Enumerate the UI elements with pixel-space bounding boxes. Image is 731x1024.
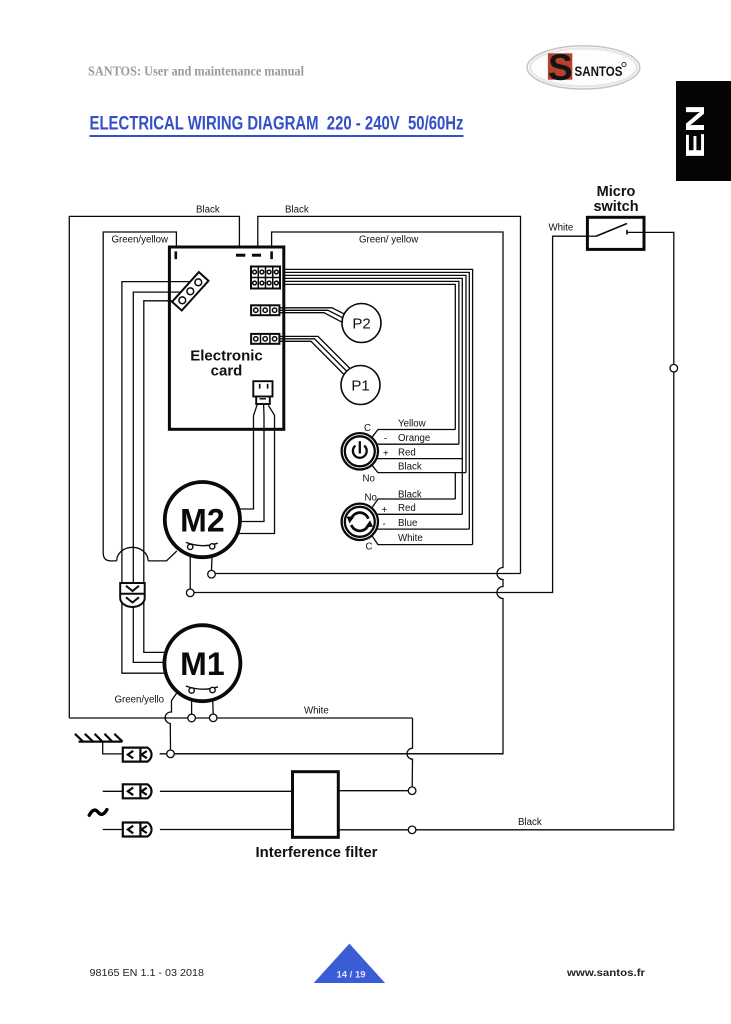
svg-text:C: C bbox=[366, 542, 373, 553]
svg-text:Black: Black bbox=[398, 462, 422, 473]
wire: card plug to M2 wire 3 bbox=[237, 405, 274, 533]
svg-text:card: card bbox=[211, 363, 243, 380]
wire: card plug to M2 wire 2 bbox=[240, 404, 264, 522]
wire: reverse button C (White) bbox=[372, 535, 473, 544]
wire: Green/yellow net right (card tick to right loop down to earth line) bbox=[175, 232, 504, 754]
wire: P1 connector to P1 (3 wires) bbox=[280, 336, 350, 368]
svg-text:Green/yello: Green/yello bbox=[115, 695, 165, 706]
wire: White net from M2 left brush up to micro switch bbox=[194, 236, 587, 592]
connector: card tilted 3-pin bbox=[172, 272, 208, 310]
card top terminal dash 2 bbox=[252, 254, 261, 257]
wire: live bullet to filter bbox=[160, 790, 293, 792]
junction: M2 right brush connector bbox=[208, 570, 216, 578]
svg-text:P2: P2 bbox=[352, 316, 370, 333]
connector: earth bullet terminal bbox=[123, 748, 152, 762]
wire: reverse button No (Black) bbox=[372, 499, 456, 508]
svg-text:www.santos.fr: www.santos.fr bbox=[566, 968, 645, 979]
svg-text:S: S bbox=[548, 47, 573, 88]
wire bundle: card to push-buttons (6 wires nested corner) bbox=[284, 269, 473, 544]
wire: M1 right brush pin drop to rail bbox=[212, 693, 215, 714]
wire: reverse button - (Blue) bbox=[377, 528, 469, 530]
wire: micro switch output down right side to interference filter bbox=[412, 232, 674, 829]
svg-text:Red: Red bbox=[398, 503, 416, 514]
wire: ground lead to earth bullet connector bbox=[103, 742, 123, 754]
wire: filter right upper output bbox=[338, 790, 408, 792]
svg-text:Black: Black bbox=[518, 817, 542, 828]
connector: card bottom plug bbox=[253, 381, 272, 404]
svg-text:ELECTRICAL WIRING DIAGRAM 220: ELECTRICAL WIRING DIAGRAM 220 - 240V 50/… bbox=[90, 114, 464, 135]
svg-text:No: No bbox=[363, 474, 375, 485]
wire: White rail drop to filter right node (hops earth line) bbox=[407, 718, 413, 787]
svg-text:Blue: Blue bbox=[398, 518, 417, 529]
wire: M1 left brush pin drop to rail bbox=[191, 693, 193, 714]
wire: neutral bullet to filter bbox=[160, 829, 293, 831]
junction: M1 right brush on rail bbox=[209, 714, 217, 722]
push-button: power (on/off) bbox=[342, 433, 378, 469]
wire: Black net 1 (card top-left to outer loop down to bottom rail) bbox=[69, 216, 239, 718]
svg-text:White: White bbox=[304, 706, 329, 717]
wire: power button C (Yellow) bbox=[372, 430, 456, 438]
connector: 2-pole inline connector on M1 wires bbox=[120, 583, 145, 607]
svg-text:C: C bbox=[364, 423, 371, 434]
connector: card P2 3-pin bbox=[251, 305, 279, 315]
wire: Black net 2 (card top to right loop down to M2 terminal wire) bbox=[258, 216, 521, 573]
junction: filter right upper node bbox=[408, 787, 416, 795]
wire: green/yellow into M2 lower-left bbox=[148, 551, 177, 561]
motor M2 bbox=[165, 482, 240, 557]
wire: card plug to M2 wire 1 bbox=[239, 404, 258, 509]
svg-text:Green/ yellow: Green/ yellow bbox=[359, 235, 419, 246]
svg-text:EN: EN bbox=[680, 105, 710, 159]
svg-text:SANTOS: User and maintenance m: SANTOS: User and maintenance manual bbox=[88, 64, 304, 79]
svg-text:M2: M2 bbox=[180, 503, 224, 539]
connector: card 8-pin block bbox=[251, 267, 280, 289]
svg-text:Black: Black bbox=[196, 205, 220, 216]
wire: link power button No to reverse button No bbox=[454, 473, 456, 499]
svg-text:-: - bbox=[384, 434, 387, 445]
connector: mains live bullet terminal bbox=[103, 790, 123, 792]
wire: card tilted connector pin1 to M1 (outer) bbox=[122, 282, 195, 674]
card top terminal tick right bbox=[270, 251, 273, 259]
wire: power button + (Red) bbox=[377, 458, 462, 460]
svg-text:Interference filter: Interference filter bbox=[256, 845, 378, 861]
wire hop: green/yellow over three card-to-M1 wires bbox=[117, 547, 148, 561]
micro switch bbox=[587, 217, 644, 249]
svg-text:White: White bbox=[549, 223, 574, 234]
svg-text:SANTOS: SANTOS bbox=[575, 64, 623, 80]
AC supply symbol ~ bbox=[89, 810, 107, 816]
wire: earth line from ground/bullet to green-yellow right riser bbox=[160, 753, 502, 755]
wire: Green/yellow net left (card tick to left loop down to M2 chassis) bbox=[103, 232, 176, 561]
junction: earth node bbox=[167, 750, 175, 758]
wire: filter right lower output bbox=[338, 829, 408, 831]
wire: M2 right brush pin drop bbox=[211, 549, 214, 570]
junction: M1 left brush on rail bbox=[188, 714, 196, 722]
ground: chassis earth symbol bbox=[75, 734, 123, 742]
svg-text:White: White bbox=[398, 533, 423, 544]
svg-text:Orange: Orange bbox=[398, 433, 430, 444]
svg-text:Black: Black bbox=[285, 205, 309, 216]
connector: card P1 3-pin bbox=[251, 334, 279, 344]
svg-text:Green/yellow: Green/yellow bbox=[112, 235, 170, 246]
wire: bottom White rail bbox=[69, 717, 412, 719]
svg-text:98165 EN 1.1 - 03 2018: 98165 EN 1.1 - 03 2018 bbox=[90, 968, 205, 979]
interference filter box bbox=[293, 772, 339, 838]
wire: M1 green/yellow chassis lead down to earth node (hops rail) bbox=[165, 693, 176, 750]
junction: connector point on micro switch output bbox=[670, 364, 678, 372]
push-button: reverse (rotation) bbox=[342, 504, 378, 540]
junction: filter right lower node bbox=[408, 826, 416, 834]
svg-text:No: No bbox=[365, 493, 377, 504]
electronic card box bbox=[169, 247, 283, 429]
svg-text:Black: Black bbox=[398, 490, 422, 501]
svg-text:14 / 19: 14 / 19 bbox=[336, 970, 365, 981]
connector: mains neutral bullet terminal bbox=[103, 829, 123, 831]
wire: card tilted connector pin2 to M1 (middle) bbox=[133, 292, 187, 662]
card top terminal tick left bbox=[175, 251, 178, 259]
svg-text:+: + bbox=[383, 449, 389, 460]
wire: power button - (Orange) bbox=[377, 443, 459, 445]
wire: reverse button + (Red) bbox=[377, 513, 462, 515]
svg-text:Red: Red bbox=[398, 448, 416, 459]
svg-text:-: - bbox=[383, 519, 386, 530]
SANTOS logo bbox=[527, 46, 640, 89]
footer: page triangle bbox=[314, 944, 385, 983]
potentiometer P1 bbox=[341, 366, 380, 405]
wire: M2 left brush pin drop bbox=[189, 550, 191, 589]
EN language tab bbox=[676, 81, 731, 181]
motor M1 bbox=[164, 625, 240, 701]
wire: power button No (Black) bbox=[372, 465, 466, 473]
wire: P2 connector to P2 (3 wires) bbox=[280, 308, 349, 317]
svg-text:M1: M1 bbox=[180, 646, 224, 682]
card top terminal dash 1 bbox=[236, 254, 245, 257]
svg-text:P1: P1 bbox=[351, 378, 369, 395]
svg-text:switch: switch bbox=[593, 199, 638, 215]
potentiometer P2 bbox=[342, 304, 381, 343]
junction: M2 left brush connector bbox=[186, 589, 194, 597]
wire: card tilted connector pin3 to M1 (inner) bbox=[144, 301, 179, 653]
svg-text:Micro: Micro bbox=[597, 184, 636, 200]
wire: M2 right brush up to Black net 2 bbox=[216, 573, 521, 575]
svg-text:+: + bbox=[382, 505, 388, 516]
svg-text:Yellow: Yellow bbox=[398, 419, 427, 430]
